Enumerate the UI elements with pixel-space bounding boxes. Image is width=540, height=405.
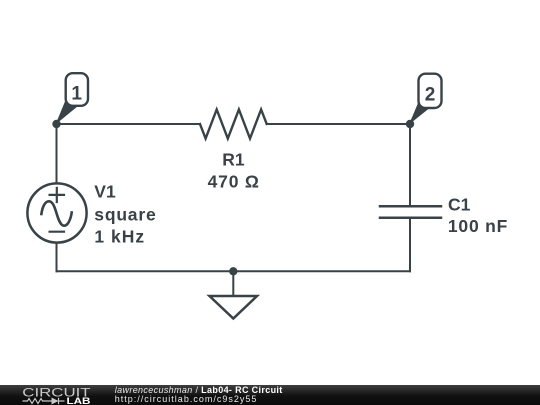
wire left rail lower (V1 to bottom rail) [56, 243, 58, 272]
V1 plus sign [50, 188, 64, 202]
ground junction dot [229, 267, 237, 275]
svg-text:1 kHz: 1 kHz [94, 227, 145, 247]
footer bar [0, 385, 540, 405]
node 1 junction dot [52, 120, 60, 128]
footer text [115, 386, 283, 404]
node 1 flag tail [56, 99, 79, 125]
node 1 flag bubble [66, 73, 88, 106]
wire top rail left (node1 to resistor) [57, 123, 201, 125]
node 2 flag bubble [419, 74, 442, 108]
node 2 flag tail [409, 100, 432, 125]
svg-text:1: 1 [71, 84, 82, 105]
wire right rail lower (C1 to bottom rail) [409, 218, 411, 272]
voltage source V1 circle [27, 183, 86, 242]
svg-text:LAB: LAB [67, 396, 91, 405]
svg-text:C1: C1 [448, 194, 471, 214]
resistor R1 [200, 110, 267, 139]
svg-text:R1: R1 [222, 149, 245, 169]
CircuitLab logo [0, 385, 110, 405]
V1 minus sign [50, 231, 64, 233]
capacitor C1 plates [380, 206, 441, 217]
wire top rail right (resistor to node2) [267, 123, 410, 125]
wire right rail upper (node2 to C1) [409, 124, 411, 206]
ground symbol [210, 296, 258, 319]
logo resistor zigzag and diode [23, 397, 65, 403]
svg-text:100 nF: 100 nF [448, 216, 508, 236]
svg-text:V1: V1 [94, 181, 116, 201]
svg-text:470 Ω: 470 Ω [208, 172, 260, 192]
wire bottom rail [57, 270, 411, 272]
svg-text:square: square [94, 204, 156, 224]
wire ground stub [232, 271, 234, 296]
V1 sine wave [41, 201, 71, 225]
logo diode triangle [52, 397, 59, 404]
wire left rail upper (node1 down to V1) [56, 124, 58, 184]
node 2 junction dot [406, 120, 414, 128]
svg-text:2: 2 [425, 84, 436, 105]
